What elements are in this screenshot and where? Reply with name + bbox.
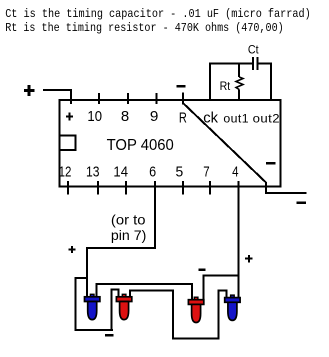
svg-text:6: 6 [149,164,156,181]
plus label near pin4 wire [245,255,252,262]
svg-text:Ct: Ct [248,45,259,57]
pin R tick [182,93,184,105]
svg-text:out2: out2 [253,111,280,125]
svg-text:9: 9 [150,108,159,125]
wire supply to pin + [43,90,71,104]
svg-text:12: 12 [59,164,72,181]
minus label near red LED2 [199,269,206,271]
svg-text:R: R [179,109,187,126]
red LED2 right lead to pin4 wire [203,275,238,299]
wire pin 4 down to blue LED2 [238,181,240,297]
svg-text:Rt is the timing resistor - 47: Rt is the timing resistor - 470K ohms (4… [5,21,284,35]
bottom pin ticks [68,181,210,194]
LED D1 blue [85,294,100,319]
svg-text:4: 4 [232,164,238,181]
pin 10 tick [98,93,100,104]
riser to blue LED2 left lead [219,291,227,339]
pin 5 tick [182,181,184,194]
pin 13 tick [97,181,99,194]
svg-text:Ct is the timing capacitor - .: Ct is the timing capacitor - .01 uF (mic… [5,7,311,21]
svg-text:TOP 4060: TOP 4060 [107,137,175,154]
red LED1 right lead over to rail4 [130,290,173,338]
svg-text:14: 14 [113,164,128,181]
svg-text:pin 7): pin 7) [111,227,146,243]
svg-text:13: 13 [86,164,100,181]
pin 14 tick [125,181,127,194]
plus supply symbol [24,85,35,96]
minus below right rail [297,202,306,205]
LED D3 red [188,297,203,322]
pin 9 tick [155,93,157,104]
pin 12 tick [67,181,69,194]
wire pin 6 down and jog left [87,181,155,297]
LED D4 blue [225,295,240,320]
svg-text:7: 7 [203,164,209,181]
minus label below rail1 [105,334,114,336]
svg-text:5: 5 [176,164,184,181]
svg-text:8: 8 [121,108,129,125]
pin 7 tick [209,181,211,194]
blue LED1 stub up to rail3 [97,284,192,300]
pin1 notch square [60,136,76,151]
top pin ticks [99,93,183,105]
resistor Rt zigzag [236,77,243,90]
riser to red LED1 left lead [112,290,119,331]
wire out1 pin up (to resistor) [238,63,240,77]
svg-text:10: 10 [87,108,102,125]
LED D2 red [116,294,131,319]
minus inside IC bottom right [266,162,276,165]
top rail right segment [257,63,272,65]
svg-text:Rt: Rt [220,81,231,93]
minus label above R pin [177,85,186,88]
svg-text:out1: out1 [223,111,249,125]
timing network: wire ck pin up [209,63,211,100]
bottom rail 1 [74,329,113,331]
pin 8 tick [127,93,129,104]
capacitor Ct plates [252,57,254,70]
wire out2 pin up [270,63,272,100]
plus label near pin6 wire [68,246,75,253]
top rail left segment [209,63,253,65]
pin + label [66,113,73,121]
IC U1 TOP 4060 body [59,100,280,186]
bottom rail 2 [172,338,220,340]
svg-text:(or to: (or to [111,212,146,228]
branch loop to red LED1: left drop [75,278,87,330]
diagonal output line inside IC [184,104,307,194]
